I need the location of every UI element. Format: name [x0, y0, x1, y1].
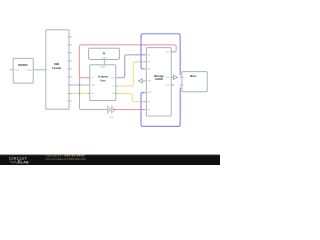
- svg-text:4: 4: [67, 61, 68, 63]
- svg-text:7: 7: [67, 85, 68, 87]
- svg-text:1: 1: [67, 37, 68, 39]
- block U4 Pi: [89, 48, 120, 59]
- svg-text:Output: Output: [26, 69, 32, 72]
- svg-text:IN2: IN2: [148, 62, 151, 64]
- pin stubs J1 right pins 1-9: [69, 37, 72, 101]
- svg-text:L293D: L293D: [155, 77, 163, 81]
- svg-text:Female: Female: [52, 66, 61, 70]
- pin stub U1 VCC1 (right): [171, 51, 174, 53]
- svg-text:+: +: [116, 106, 118, 108]
- wire battery minus: vertical at x79.4 down to BT1: [79, 78, 107, 110]
- svg-text:Motor: Motor: [190, 75, 197, 78]
- svg-text:6: 6: [67, 77, 68, 79]
- svg-text:5: 5: [47, 70, 48, 72]
- svg-text:EN1: EN1: [148, 69, 151, 71]
- svg-text:VCC1: VCC1: [166, 52, 170, 54]
- wire U2 D10 to U1 IN1 (purple): [116, 55, 147, 78]
- svg-text:Arduino: Arduino: [98, 75, 109, 79]
- wire U3 Output to J1 pin 5: [33, 69, 46, 71]
- node junction at (79.4,85.0): [78, 84, 80, 86]
- svg-text:OUT2: OUT2: [166, 85, 170, 87]
- pin U1 GND with left arrow symbol: [138, 79, 146, 83]
- pin stub U1 EN2 (grey): [144, 92, 147, 94]
- wire J1 pin7 to U2 GND (grey): [69, 84, 90, 86]
- svg-text:BT1: BT1: [110, 117, 113, 119]
- svg-text:9: 9: [67, 101, 68, 103]
- svg-text:A0: A0: [91, 92, 93, 95]
- block M1 Motor: [182, 72, 207, 92]
- svg-text:8: 8: [67, 93, 68, 95]
- svg-text:IN1: IN1: [148, 55, 151, 57]
- block U3 BIOPAC: [13, 58, 33, 83]
- svg-text:1: 1: [183, 77, 184, 79]
- logo waveform squiggle: [10, 161, 18, 163]
- node junction at (79.4,93.4): [78, 92, 80, 94]
- pin stub U1 OUT2: [171, 84, 174, 86]
- wire U2 D8 to U1 IN3 (yellow): [116, 94, 147, 102]
- svg-text:D8: D8: [112, 93, 114, 95]
- pin stub M1 pin2: [180, 84, 182, 86]
- svg-text:http://circuitlab.com/c8t5duh6: http://circuitlab.com/c8t5duh6vz4bb: [46, 158, 87, 161]
- wire J1 pin8 to U2 A0 (yellow): [69, 92, 90, 94]
- battery BT1: [108, 106, 117, 113]
- svg-text:DB9: DB9: [54, 62, 60, 66]
- svg-text:D9: D9: [112, 86, 114, 88]
- wire 5V net (red loop): U2 5V pin up over top to U1 VCC1: [79, 45, 176, 78]
- logo square-wave glyph: [18, 161, 21, 163]
- svg-text:1: 1: [106, 62, 107, 64]
- pin numbers J1 right 1-9: [67, 37, 68, 103]
- wire BT1 plus to U1 VS (red): [117, 109, 147, 111]
- block U2 Arduino Uno: [90, 65, 116, 101]
- svg-text:2: 2: [67, 45, 68, 47]
- svg-text:3: 3: [67, 53, 68, 55]
- svg-text:BIOPAC: BIOPAC: [18, 64, 28, 67]
- svg-text:Pi: Pi: [103, 51, 106, 55]
- pin stub U3 Input (left): [10, 69, 13, 71]
- wire EN1 to EN2 (blue loop around U1): upper run: [141, 34, 180, 75]
- svg-text:2: 2: [183, 85, 184, 87]
- wire U1 OUT1 to motor pin1 with arrow: [171, 75, 177, 79]
- pin stub U1 EN1 (grey): [144, 68, 147, 70]
- svg-text:5: 5: [67, 69, 68, 71]
- IC U1 Hbridge L293D: [146, 48, 171, 116]
- connector J1 DB9 Female: [46, 30, 69, 109]
- svg-text:Uno: Uno: [100, 78, 106, 82]
- footer watermark bar: [0, 155, 220, 165]
- svg-text:VS: VS: [148, 109, 150, 111]
- svg-text:Input: Input: [15, 69, 19, 72]
- svg-text:USB B: USB B: [100, 66, 106, 68]
- svg-text:D10: D10: [111, 77, 114, 79]
- pin stub M1 pin1: [180, 76, 182, 78]
- svg-text:EN2: EN2: [148, 92, 151, 94]
- pin stub U4 USB A (bottom): [103, 59, 105, 64]
- svg-text:nattytj5214 / B65700-MPB2: nattytj5214 / B65700-MPB2: [46, 154, 85, 158]
- svg-text:LAB: LAB: [21, 161, 29, 165]
- svg-text:IN3: IN3: [148, 101, 151, 103]
- wire U2 D9 to U1 IN2 (yellow): [116, 62, 147, 86]
- wire EN1 to EN2 (blue loop around U1): lower run: [141, 88, 180, 126]
- svg-text:OUT1: OUT1: [166, 77, 170, 79]
